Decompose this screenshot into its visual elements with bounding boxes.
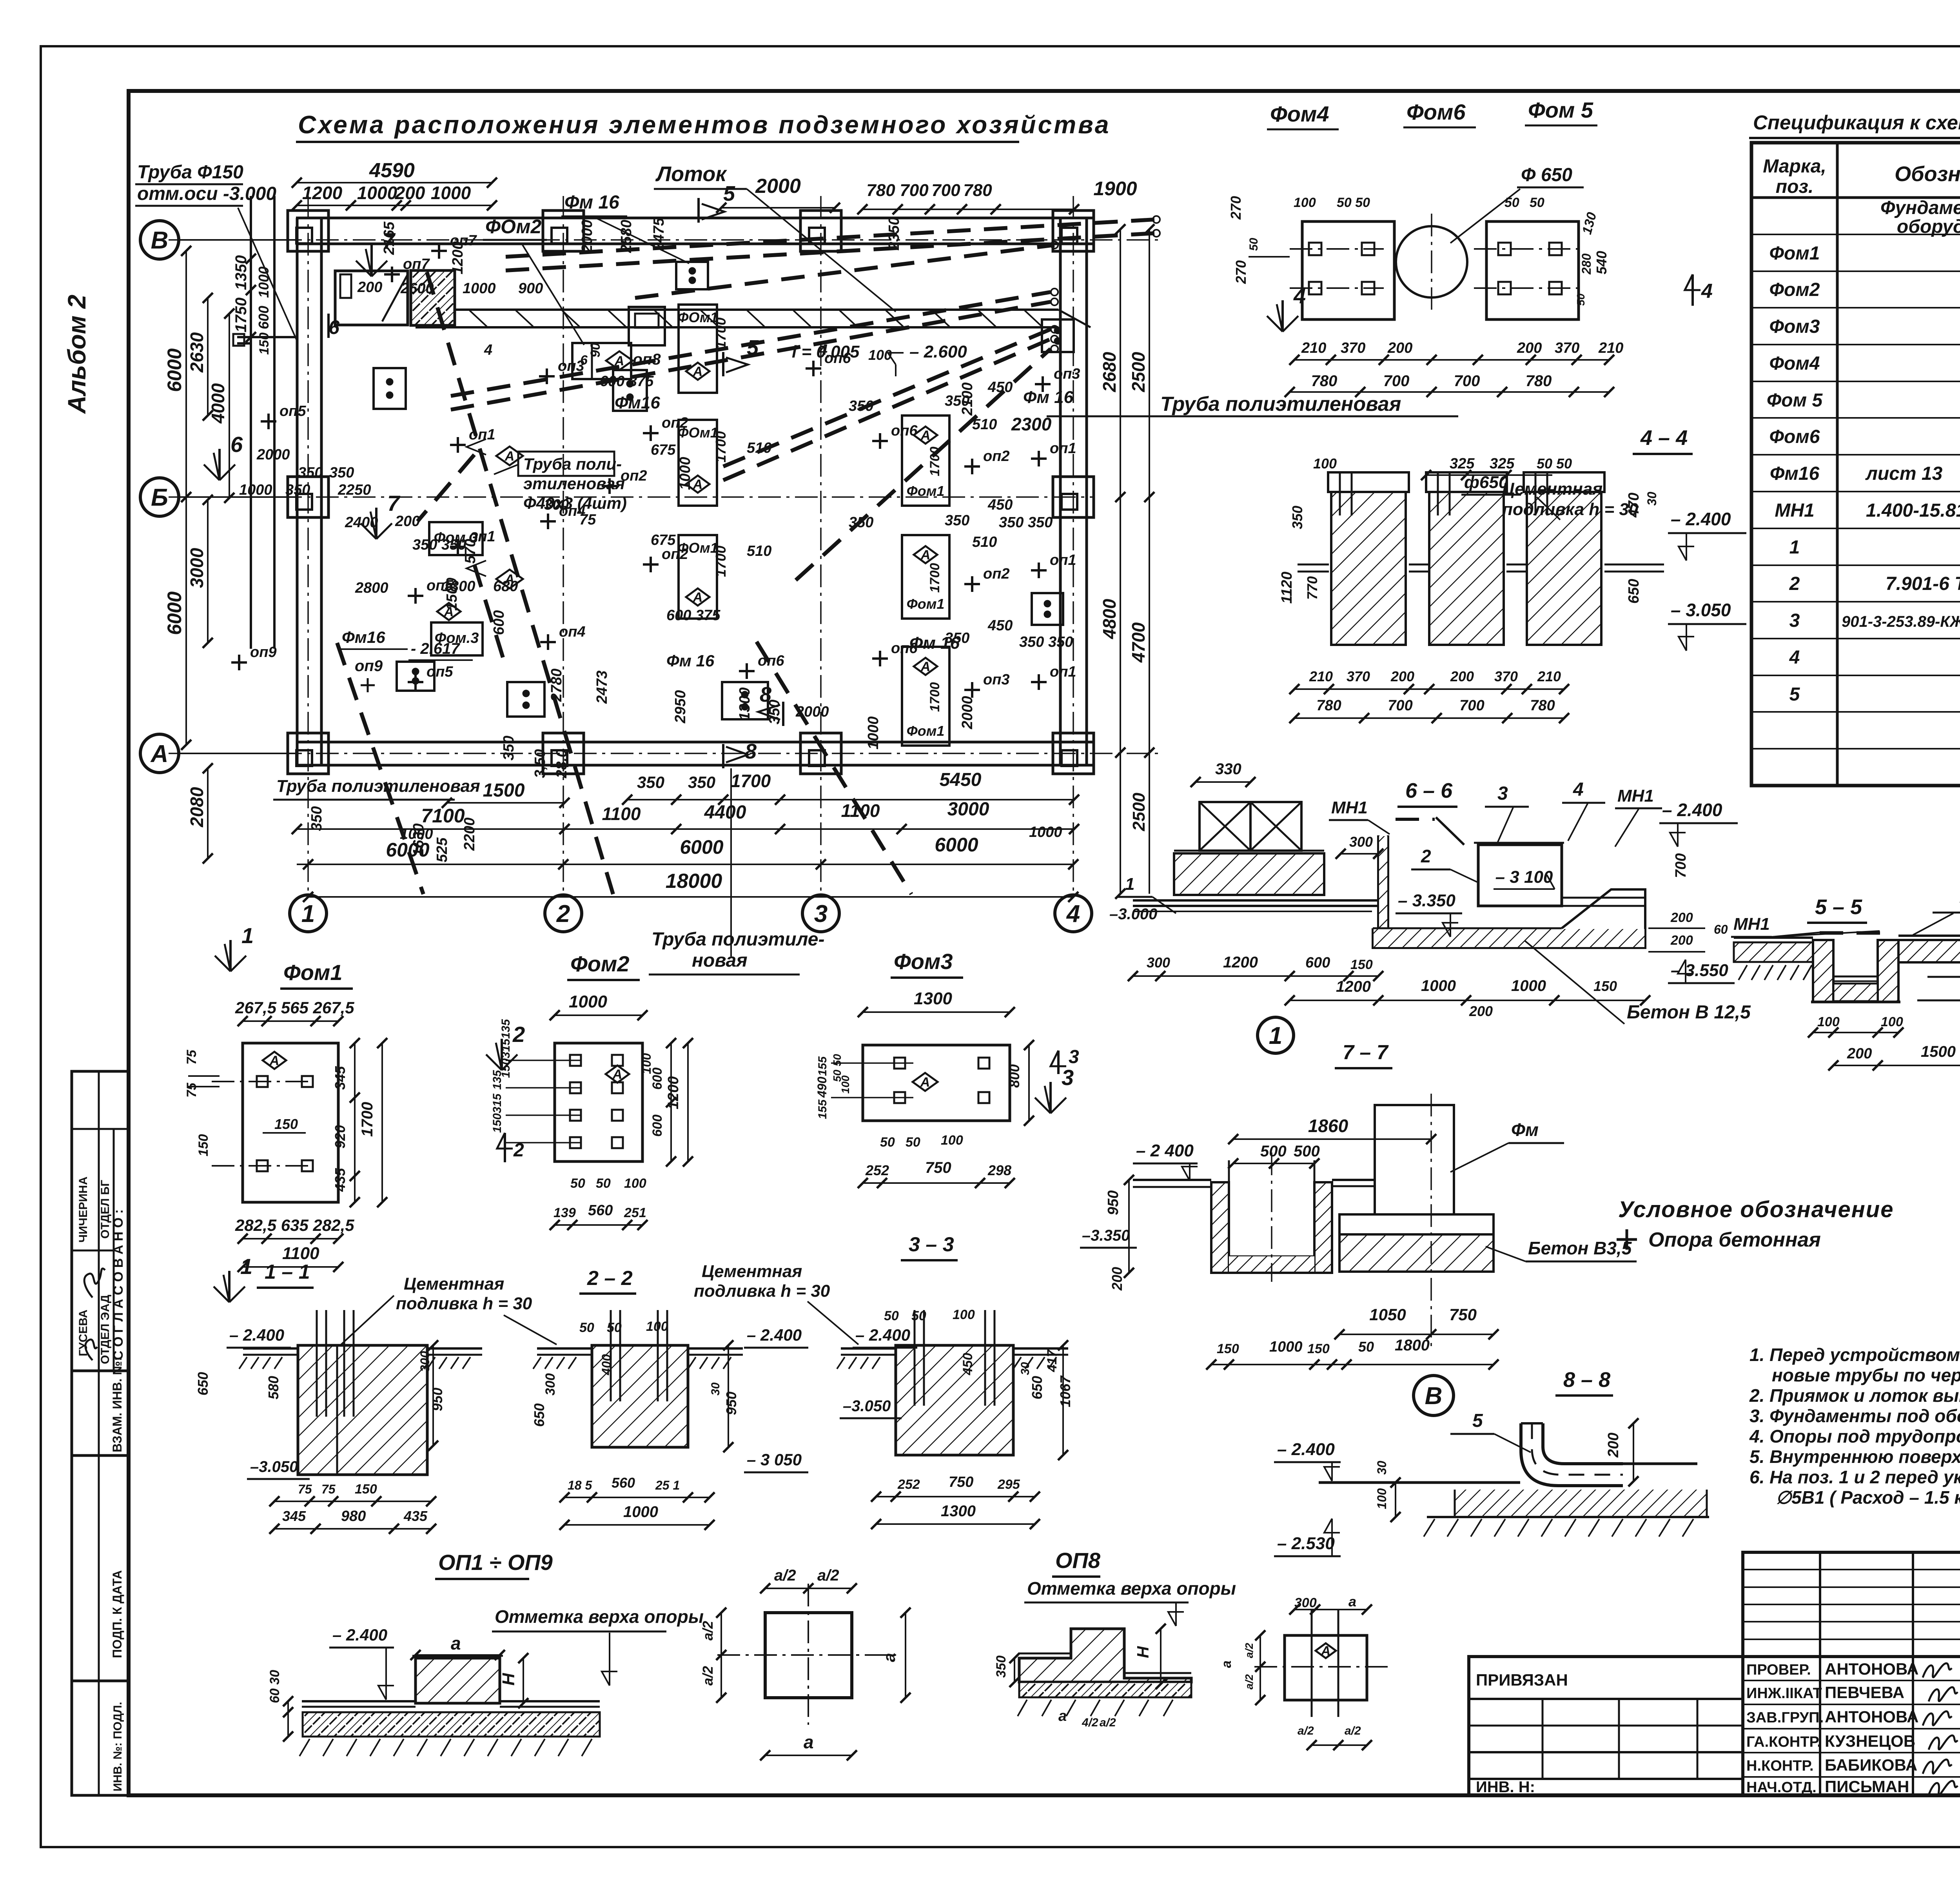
svg-text:4: 4 xyxy=(1573,779,1584,800)
svg-text:6000: 6000 xyxy=(680,836,723,858)
svg-text:ПРОВЕР.: ПРОВЕР. xyxy=(1746,1662,1811,1678)
svg-text:6000: 6000 xyxy=(935,834,978,856)
svg-text:2. Приямок и лоток выполни: 2. Приямок и лоток выполнить из бетона к… xyxy=(1749,1385,1960,1406)
svg-text:280: 280 xyxy=(1579,253,1593,275)
svg-text:200: 200 xyxy=(1390,668,1414,684)
svg-text:А: А xyxy=(693,364,703,379)
svg-text:оп9: оп9 xyxy=(250,644,277,661)
svg-text:7 – 7: 7 – 7 xyxy=(1343,1041,1389,1064)
svg-text:– 2.400: – 2.400 xyxy=(747,1326,802,1344)
svg-text:Н: Н xyxy=(499,1673,518,1686)
svg-text:417: 417 xyxy=(1045,1349,1060,1372)
svg-text:1900: 1900 xyxy=(1093,178,1137,200)
svg-text:a: a xyxy=(1348,1593,1356,1610)
svg-text:А: А xyxy=(612,1067,622,1082)
svg-text:1500: 1500 xyxy=(444,577,460,611)
svg-text:7100: 7100 xyxy=(421,805,465,827)
svg-text:600: 600 xyxy=(650,1114,665,1137)
svg-text:Схема расположения элементов: Схема расположения элементов подземного … xyxy=(298,111,1111,139)
svg-text:2600: 2600 xyxy=(400,280,434,297)
svg-text:4: 4 xyxy=(819,342,828,358)
svg-text:350: 350 xyxy=(1289,506,1305,529)
svg-text:a/2: a/2 xyxy=(774,1567,796,1584)
svg-text:Ф 650: Ф 650 xyxy=(1521,165,1572,185)
svg-text:450: 450 xyxy=(987,497,1013,513)
svg-text:Фом3: Фом3 xyxy=(1769,316,1820,337)
svg-text:– 2.400: – 2.400 xyxy=(332,1626,387,1644)
svg-text:1500: 1500 xyxy=(483,780,525,801)
svg-text:8: 8 xyxy=(745,740,757,763)
svg-text:150: 150 xyxy=(257,332,272,355)
svg-text:4. Опоры под трудопроводы в: 4. Опоры под трудопроводы выполнять из б… xyxy=(1749,1426,1960,1446)
svg-text:600 375: 600 375 xyxy=(666,607,720,624)
svg-text:50: 50 xyxy=(579,1320,594,1335)
svg-text:1: 1 xyxy=(1269,1022,1282,1049)
svg-text:50: 50 xyxy=(607,1320,622,1335)
svg-text:200: 200 xyxy=(1469,1003,1493,1019)
svg-text:– 2.400: – 2.400 xyxy=(229,1326,284,1344)
svg-text:Опора бетонная: Опора бетонная xyxy=(1648,1229,1821,1251)
svg-text:Цементная: Цементная xyxy=(1502,479,1602,499)
svg-text:Марка,: Марка, xyxy=(1763,156,1826,177)
svg-text:60: 60 xyxy=(1714,922,1728,936)
svg-text:6: 6 xyxy=(230,432,243,457)
svg-text:Фом 5: Фом 5 xyxy=(1767,390,1823,411)
svg-text:540: 540 xyxy=(1593,251,1610,274)
svg-text:1000: 1000 xyxy=(357,183,397,203)
svg-text:3000: 3000 xyxy=(947,799,989,820)
svg-text:901-3-253.89-КЖ.И.70.040-01: 901-3-253.89-КЖ.И.70.040-01 xyxy=(1842,613,1960,630)
svg-text:200: 200 xyxy=(395,513,420,530)
svg-text:2400: 2400 xyxy=(345,514,378,531)
svg-text:В: В xyxy=(1425,1383,1443,1410)
svg-text:∅5В1 ( Расход – 1.5 кг ).: ∅5В1 ( Расход – 1.5 кг ). xyxy=(1776,1487,1960,1508)
svg-text:3 – 3: 3 – 3 xyxy=(909,1233,954,1256)
svg-text:Отметка верха опоры: Отметка верха опоры xyxy=(1027,1578,1236,1599)
svg-text:новая: новая xyxy=(692,950,748,971)
svg-text:Фом3: Фом3 xyxy=(894,949,953,974)
svg-text:2475: 2475 xyxy=(651,218,667,251)
svg-text:200: 200 xyxy=(1847,1045,1872,1062)
svg-text:ИНВ. №: ПОДЛ.: ИНВ. №: ПОДЛ. xyxy=(111,1702,124,1791)
svg-text:оп6: оп6 xyxy=(824,350,851,367)
svg-text:А: А xyxy=(920,428,931,443)
svg-text:ПИСЬМАН: ПИСЬМАН xyxy=(1825,1777,1909,1796)
svg-text:оп6: оп6 xyxy=(891,423,918,439)
svg-text:50: 50 xyxy=(906,1135,920,1150)
svg-text:2000: 2000 xyxy=(959,696,976,730)
svg-text:50: 50 xyxy=(911,1308,926,1323)
svg-text:МН1: МН1 xyxy=(1733,915,1770,934)
svg-text:– 2 400: – 2 400 xyxy=(1136,1141,1194,1160)
svg-text:4: 4 xyxy=(1293,283,1306,308)
svg-text:2250: 2250 xyxy=(338,482,371,498)
svg-text:a/2: a/2 xyxy=(700,1621,716,1640)
svg-text:1000: 1000 xyxy=(1029,824,1062,840)
svg-text:Труба Ф150: Труба Ф150 xyxy=(137,162,243,183)
svg-text:200: 200 xyxy=(357,279,382,296)
svg-text:ГУСЕВА: ГУСЕВА xyxy=(77,1310,90,1356)
svg-text:350: 350 xyxy=(298,465,323,481)
svg-text:Лоток: Лоток xyxy=(655,162,727,186)
svg-text:1700: 1700 xyxy=(713,431,729,463)
svg-text:МН1: МН1 xyxy=(1331,798,1368,817)
svg-text:Труба полиэтиле-: Труба полиэтиле- xyxy=(652,929,824,950)
svg-text:Фм16: Фм16 xyxy=(1770,463,1820,484)
svg-text:350: 350 xyxy=(309,806,325,831)
svg-text:Фм: Фм xyxy=(1511,1120,1539,1140)
svg-text:30: 30 xyxy=(1375,1461,1389,1475)
svg-text:267,5 565 267,5: 267,5 565 267,5 xyxy=(235,998,354,1017)
svg-text:4: 4 xyxy=(1789,647,1800,668)
svg-text:780: 780 xyxy=(1311,372,1338,390)
svg-text:100: 100 xyxy=(953,1307,975,1322)
svg-text:С О Г Л А С О В А Н О :: С О Г Л А С О В А Н О : xyxy=(111,1209,126,1360)
svg-text:700: 700 xyxy=(1459,697,1484,714)
svg-text:Фом1: Фом1 xyxy=(283,960,343,985)
svg-text:2500: 2500 xyxy=(1128,352,1149,392)
svg-text:а/2: а/2 xyxy=(1243,1643,1255,1658)
svg-text:а/2: а/2 xyxy=(1100,1716,1116,1729)
svg-text:1200: 1200 xyxy=(1223,954,1258,971)
svg-text:2000: 2000 xyxy=(579,220,595,253)
svg-text:200: 200 xyxy=(1517,340,1542,356)
svg-text:350 350: 350 350 xyxy=(1019,634,1073,650)
svg-text:Фм 16: Фм 16 xyxy=(564,192,619,213)
svg-text:8 – 8: 8 – 8 xyxy=(1563,1368,1610,1392)
svg-text:1000: 1000 xyxy=(1511,977,1546,994)
svg-text:50: 50 xyxy=(570,1176,585,1191)
svg-text:750: 750 xyxy=(925,1159,951,1176)
svg-text:150: 150 xyxy=(1217,1341,1239,1356)
svg-text:ЗАВ.ГРУП.: ЗАВ.ГРУП. xyxy=(1746,1709,1824,1726)
svg-text:920: 920 xyxy=(332,1125,348,1149)
svg-text:a: a xyxy=(1058,1708,1067,1724)
svg-text:800: 800 xyxy=(1006,1064,1022,1088)
svg-text:700: 700 xyxy=(1454,372,1480,390)
svg-text:345: 345 xyxy=(332,1066,348,1090)
svg-text:900: 900 xyxy=(518,280,543,297)
svg-text:1120: 1120 xyxy=(1279,572,1295,604)
svg-text:Фм16: Фм16 xyxy=(615,393,660,412)
svg-text:75: 75 xyxy=(184,1049,199,1065)
svg-text:a: a xyxy=(880,1653,898,1662)
svg-text:2080: 2080 xyxy=(187,787,207,828)
svg-text:оп1: оп1 xyxy=(1050,552,1076,568)
svg-text:780: 780 xyxy=(866,181,895,200)
svg-text:282,5 635 282,5: 282,5 635 282,5 xyxy=(235,1216,354,1234)
svg-text:1700: 1700 xyxy=(927,682,942,712)
svg-text:435: 435 xyxy=(332,1168,348,1192)
svg-text:1100: 1100 xyxy=(282,1244,319,1263)
svg-text:оп4: оп4 xyxy=(559,624,586,640)
svg-text:отм.оси -3.000: отм.оси -3.000 xyxy=(137,183,276,204)
svg-text:5. Внутреннюю поверхность пр: 5. Внутреннюю поверхность приямка затере… xyxy=(1749,1446,1960,1467)
svg-text:30: 30 xyxy=(1645,492,1659,506)
svg-text:210: 210 xyxy=(1598,340,1623,356)
svg-text:3: 3 xyxy=(1789,610,1800,631)
svg-text:470: 470 xyxy=(1626,493,1642,518)
svg-text:– 3.050: – 3.050 xyxy=(1671,600,1731,620)
svg-text:580: 580 xyxy=(265,1376,281,1399)
svg-text:А: А xyxy=(920,548,931,563)
svg-text:1860: 1860 xyxy=(1308,1116,1348,1136)
svg-text:3. Фундаменты под оборудов: 3. Фундаменты под оборудование выполнить… xyxy=(1749,1406,1960,1426)
svg-text:510: 510 xyxy=(747,543,771,559)
svg-text:155: 155 xyxy=(816,1099,829,1119)
svg-text:ГА.КОНТР.: ГА.КОНТР. xyxy=(1746,1734,1821,1750)
svg-text:А: А xyxy=(920,659,931,674)
svg-text:950: 950 xyxy=(1105,1190,1122,1215)
svg-text:Бетон В 12,5: Бетон В 12,5 xyxy=(1627,1002,1751,1023)
svg-text:АНТОНОВА: АНТОНОВА xyxy=(1825,1708,1919,1726)
svg-text:Бетон В3,5: Бетон В3,5 xyxy=(1528,1238,1632,1258)
svg-text:2350: 2350 xyxy=(886,217,902,250)
svg-text:600: 600 xyxy=(491,610,507,635)
svg-text:18000: 18000 xyxy=(666,870,722,893)
svg-text:НАЧ.ОТД.: НАЧ.ОТД. xyxy=(1746,1779,1817,1796)
svg-text:650: 650 xyxy=(531,1403,547,1427)
svg-text:100: 100 xyxy=(646,1319,668,1334)
svg-text:a: a xyxy=(451,1633,461,1653)
svg-text:700: 700 xyxy=(1383,372,1410,390)
svg-text:2950: 2950 xyxy=(672,690,689,724)
svg-text:a/2: a/2 xyxy=(817,1567,839,1584)
svg-text:А: А xyxy=(150,740,169,768)
svg-text:Фом1: Фом1 xyxy=(907,483,945,499)
svg-text:560: 560 xyxy=(588,1202,613,1219)
svg-text:3: 3 xyxy=(1069,1047,1079,1067)
svg-text:150: 150 xyxy=(274,1116,298,1132)
svg-text:– 3 050: – 3 050 xyxy=(747,1450,802,1469)
svg-text:5: 5 xyxy=(1472,1410,1483,1431)
svg-text:2 – 2: 2 – 2 xyxy=(587,1267,633,1290)
svg-text:А: А xyxy=(920,1075,930,1090)
svg-text:оборудование: оборудование xyxy=(1897,216,1960,237)
svg-text:1000: 1000 xyxy=(1269,1339,1303,1355)
svg-text:подливка h = 30: подливка h = 30 xyxy=(694,1281,830,1301)
svg-text:150: 150 xyxy=(491,1113,504,1133)
svg-text:350: 350 xyxy=(994,1655,1009,1678)
svg-text:4700: 4700 xyxy=(1128,622,1149,663)
svg-text:200: 200 xyxy=(1387,340,1412,356)
svg-text:1: 1 xyxy=(241,923,254,948)
svg-text:лист 13: лист 13 xyxy=(1865,463,1943,484)
svg-text:ОТДЕЛ БГ: ОТДЕЛ БГ xyxy=(99,1180,112,1239)
svg-text:300: 300 xyxy=(418,1351,432,1372)
svg-text:25 1: 25 1 xyxy=(655,1478,680,1492)
svg-text:700: 700 xyxy=(1388,697,1412,714)
svg-text:2800: 2800 xyxy=(355,580,388,596)
svg-text:5 – 5: 5 – 5 xyxy=(1815,895,1862,919)
svg-text:155: 155 xyxy=(816,1056,829,1076)
svg-text:оп2: оп2 xyxy=(662,415,688,431)
svg-text:ПЕВЧЕВА: ПЕВЧЕВА xyxy=(1825,1683,1904,1702)
svg-text:525: 525 xyxy=(434,837,450,862)
svg-text:– 3.350: – 3.350 xyxy=(1398,891,1455,910)
svg-text:Фом6: Фом6 xyxy=(1769,426,1820,447)
svg-text:1067: 1067 xyxy=(1057,1375,1073,1407)
svg-text:1000: 1000 xyxy=(256,267,272,298)
svg-text:МН1: МН1 xyxy=(1617,786,1654,806)
svg-text:139: 139 xyxy=(554,1205,576,1220)
svg-text:2000: 2000 xyxy=(755,175,801,198)
svg-text:370: 370 xyxy=(1494,668,1518,684)
svg-text:350: 350 xyxy=(945,630,969,646)
svg-text:560: 560 xyxy=(612,1475,635,1491)
svg-text:370: 370 xyxy=(1341,340,1365,356)
svg-text:3,50: 3,50 xyxy=(532,749,548,778)
svg-text:1000: 1000 xyxy=(463,280,496,297)
svg-text:МН1: МН1 xyxy=(1775,500,1814,521)
svg-text:ЧИЧЕРИНА: ЧИЧЕРИНА xyxy=(77,1176,90,1243)
svg-text:1800: 1800 xyxy=(1395,1337,1430,1354)
svg-text:370: 370 xyxy=(1347,668,1370,684)
svg-text:1000: 1000 xyxy=(431,183,471,203)
svg-text:– 2.400: – 2.400 xyxy=(855,1326,910,1344)
svg-text:780: 780 xyxy=(963,181,992,200)
svg-text:оп9: оп9 xyxy=(355,657,383,675)
svg-text:510: 510 xyxy=(747,440,771,456)
svg-text:1200: 1200 xyxy=(1336,978,1371,995)
svg-text:295: 295 xyxy=(997,1477,1020,1492)
svg-text:675: 675 xyxy=(651,532,676,548)
svg-text:298: 298 xyxy=(987,1162,1011,1178)
svg-text:6000: 6000 xyxy=(163,348,185,392)
svg-text:350: 350 xyxy=(637,773,664,791)
svg-text:50 50: 50 50 xyxy=(1337,195,1370,210)
svg-text:350 350: 350 350 xyxy=(412,537,466,553)
svg-text:Цементная: Цементная xyxy=(404,1274,504,1294)
svg-text:Труба полиэтиленовая: Труба полиэтиленовая xyxy=(276,777,480,796)
svg-text:А: А xyxy=(1321,1644,1331,1659)
svg-text:Отметка верха опоры: Отметка верха опоры xyxy=(495,1606,704,1627)
svg-text:Фом1: Фом1 xyxy=(907,723,945,739)
svg-text:Фом1: Фом1 xyxy=(907,596,945,612)
svg-text:1700: 1700 xyxy=(713,546,729,577)
svg-text:75: 75 xyxy=(579,512,596,528)
svg-text:1300: 1300 xyxy=(737,687,753,720)
svg-text:Фом4: Фом4 xyxy=(1769,353,1820,374)
svg-text:ПРИВЯЗАН: ПРИВЯЗАН xyxy=(1476,1671,1568,1689)
svg-text:2680: 2680 xyxy=(1099,352,1120,392)
svg-text:700: 700 xyxy=(900,181,929,200)
svg-text:300: 300 xyxy=(1147,955,1170,971)
svg-text:600: 600 xyxy=(256,306,272,329)
svg-text:100: 100 xyxy=(1817,1014,1840,1029)
svg-text:50: 50 xyxy=(1358,1339,1374,1355)
svg-text:a: a xyxy=(1219,1660,1234,1668)
svg-text:75: 75 xyxy=(184,1082,199,1098)
svg-text:А: А xyxy=(269,1053,279,1068)
svg-text:ФОм2: ФОм2 xyxy=(485,216,542,238)
svg-text:2000: 2000 xyxy=(256,446,290,463)
svg-text:4: 4 xyxy=(484,342,492,358)
svg-text:Б: Б xyxy=(151,484,168,511)
svg-text:–3.350: –3.350 xyxy=(1082,1227,1130,1244)
svg-text:600 375: 600 375 xyxy=(600,373,654,390)
svg-text:оп2: оп2 xyxy=(983,566,1010,582)
svg-text:400: 400 xyxy=(599,1354,613,1376)
svg-text:600: 600 xyxy=(1305,955,1330,971)
svg-text:510: 510 xyxy=(972,534,997,550)
svg-text:6 – 6: 6 – 6 xyxy=(1405,779,1453,802)
svg-text:135: 135 xyxy=(499,1019,512,1039)
svg-text:1050: 1050 xyxy=(1369,1305,1406,1324)
svg-text:а/2: а/2 xyxy=(1345,1724,1361,1737)
svg-text:100: 100 xyxy=(1881,1014,1903,1029)
svg-text:210: 210 xyxy=(1537,668,1561,684)
svg-text:4000: 4000 xyxy=(208,383,228,424)
svg-text:100: 100 xyxy=(1294,195,1316,210)
svg-text:1000: 1000 xyxy=(1421,977,1456,994)
svg-text:КУЗНЕЦОВ: КУЗНЕЦОВ xyxy=(1825,1732,1915,1750)
svg-text:оп2: оп2 xyxy=(621,468,647,484)
svg-text:1200: 1200 xyxy=(302,183,343,203)
svg-text:Фм16: Фм16 xyxy=(342,628,385,646)
svg-text:Н.КОНТР.: Н.КОНТР. xyxy=(1746,1758,1814,1774)
svg-text:– 2.530: – 2.530 xyxy=(1277,1534,1335,1553)
svg-text:2: 2 xyxy=(1789,573,1800,594)
svg-text:1: 1 xyxy=(1125,875,1134,894)
svg-text:950: 950 xyxy=(429,1388,445,1411)
svg-text:1 – 1: 1 – 1 xyxy=(265,1261,310,1283)
svg-text:350: 350 xyxy=(501,736,517,760)
svg-text:200: 200 xyxy=(1670,910,1693,925)
svg-text:– 2.400: – 2.400 xyxy=(1277,1440,1335,1459)
svg-text:Труба полиэтиленовая: Труба полиэтиленовая xyxy=(1160,393,1401,416)
svg-text:750: 750 xyxy=(949,1474,973,1490)
svg-text:оп1: оп1 xyxy=(1050,440,1076,457)
svg-text:Фом6: Фом6 xyxy=(1406,100,1466,124)
svg-text:Фом2: Фом2 xyxy=(1769,279,1820,300)
svg-text:поз.: поз. xyxy=(1776,176,1813,197)
svg-text:570: 570 xyxy=(462,539,479,564)
svg-text:Фом.3: Фом.3 xyxy=(435,630,479,646)
svg-text:50: 50 xyxy=(831,1054,843,1066)
svg-text:200: 200 xyxy=(1109,1267,1125,1291)
svg-text:оп7: оп7 xyxy=(403,256,430,272)
svg-text:75: 75 xyxy=(321,1482,336,1496)
svg-text:оп1: оп1 xyxy=(469,426,495,443)
svg-text:200: 200 xyxy=(1605,1433,1622,1458)
svg-text:Спецификация к схеме расположе: Спецификация к схеме расположения элемен… xyxy=(1753,111,1960,134)
svg-text:– 2.400: – 2.400 xyxy=(1671,509,1731,529)
svg-text:100: 100 xyxy=(941,1133,963,1148)
svg-text:500: 500 xyxy=(1294,1143,1320,1160)
svg-text:а/2: а/2 xyxy=(1243,1674,1255,1689)
svg-text:600: 600 xyxy=(650,1067,665,1090)
svg-text:2473: 2473 xyxy=(594,670,610,704)
svg-text:270: 270 xyxy=(1228,196,1244,220)
svg-text:252: 252 xyxy=(865,1162,889,1178)
svg-text:оп5: оп5 xyxy=(426,664,453,680)
svg-text:50: 50 xyxy=(1530,195,1544,210)
svg-text:1000: 1000 xyxy=(239,482,272,498)
svg-text:1500: 1500 xyxy=(1921,1043,1956,1060)
svg-text:Фом1: Фом1 xyxy=(1769,243,1820,264)
svg-text:980: 980 xyxy=(341,1508,366,1524)
svg-text:2300: 2300 xyxy=(1011,414,1052,434)
svg-text:370: 370 xyxy=(1555,340,1579,356)
svg-text:2580: 2580 xyxy=(618,220,635,253)
svg-text:435: 435 xyxy=(403,1508,428,1524)
svg-text:780: 780 xyxy=(1316,697,1341,714)
svg-text:Фундаменты под: Фундаменты под xyxy=(1880,198,1960,218)
svg-text:50: 50 xyxy=(884,1308,899,1323)
svg-text:300: 300 xyxy=(1349,834,1373,850)
svg-text:ИНВ. Н:: ИНВ. Н: xyxy=(1476,1778,1535,1796)
